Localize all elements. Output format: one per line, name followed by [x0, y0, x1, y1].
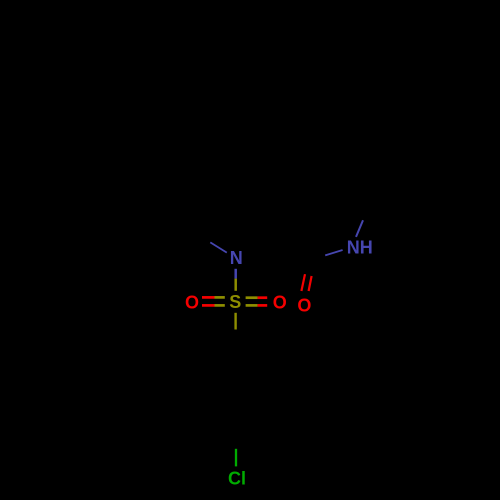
svg-text:Cl: Cl — [228, 469, 246, 489]
wire bond S1-CH3 olive half — [234, 313, 236, 330]
svg-text:NH: NH — [347, 238, 373, 258]
wire bond NH-CH2 blue half — [356, 220, 363, 237]
wire bond C-Cl green half — [235, 449, 237, 467]
wire C=O carbonyl double bond line 1 red half — [301, 274, 305, 291]
wire C=O carbonyl double bond line 2 red half — [309, 276, 312, 291]
wire S=O right double bond bottom line red half — [258, 304, 268, 307]
svg-text:O: O — [185, 292, 199, 312]
wire S=O right double bond bottom line olive half — [246, 304, 258, 307]
svg-text:O: O — [273, 293, 287, 313]
wire bond N1-S olive half — [234, 279, 237, 291]
wire S=O right double bond top line olive half — [246, 296, 258, 299]
wire S=O left double bond bottom line olive half — [215, 304, 225, 307]
wire bond N1-S blue half — [234, 269, 237, 279]
wire S=O right double bond top line red half — [258, 296, 268, 299]
svg-text:O: O — [297, 296, 311, 316]
svg-text:S: S — [229, 292, 241, 312]
svg-text:N: N — [230, 248, 243, 268]
wire bond NH-C carbonyl blue half — [325, 250, 342, 255]
wire bond N1 to CH2 (blue half) — [210, 242, 227, 252]
wire S=O left double bond top line red half — [202, 296, 215, 299]
wire S=O left double bond top line olive half — [215, 296, 225, 299]
wire S=O left double bond bottom line red half — [202, 304, 215, 307]
